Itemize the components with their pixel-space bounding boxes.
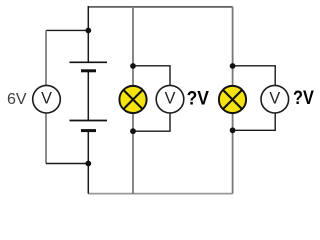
battery B1 cell 2 long plate [70, 120, 108, 122]
node junction lamp L1 bottom [130, 128, 136, 134]
label 6V [7, 91, 27, 108]
wire lamp L2 branch [232, 7, 234, 194]
node junction lamp L2 top [230, 63, 236, 69]
node junction battery bottom [85, 161, 91, 167]
node junction lamp L2 bottom [230, 127, 236, 133]
wire voltmeter V1 loop [133, 66, 170, 131]
battery B1 cell 1 long plate [70, 61, 108, 63]
wire battery branch [87, 6, 89, 194]
node junction lamp L1 top [130, 63, 136, 69]
wire top bus [88, 6, 232, 8]
wire voltmeter V3 top lead [46, 29, 88, 31]
wire voltmeter V3 left branch [45, 30, 47, 163]
lamp L1 [119, 86, 146, 113]
battery B1 cell 1 short plate [81, 69, 96, 72]
wire lamp L1 branch [132, 7, 134, 194]
label ?V for V1 [187, 88, 210, 110]
node junction battery top [85, 28, 91, 34]
voltmeter V2 body [261, 85, 289, 113]
voltmeter V1 body [156, 85, 184, 113]
battery B1 cell 2 short plate [81, 129, 96, 132]
svg-text:6V: 6V [7, 91, 27, 108]
wire voltmeter V3 bottom lead [46, 163, 88, 165]
svg-text:?V: ?V [293, 88, 314, 109]
lamp L2 [219, 86, 246, 113]
svg-text:V: V [165, 90, 176, 108]
wire bottom bus [88, 193, 232, 195]
svg-text:V: V [269, 90, 280, 108]
svg-text:V: V [41, 90, 52, 108]
voltmeter V3 body [33, 85, 61, 113]
wire voltmeter V2 loop [233, 66, 276, 131]
label ?V for V2 [293, 88, 314, 109]
svg-text:?V: ?V [187, 88, 210, 110]
